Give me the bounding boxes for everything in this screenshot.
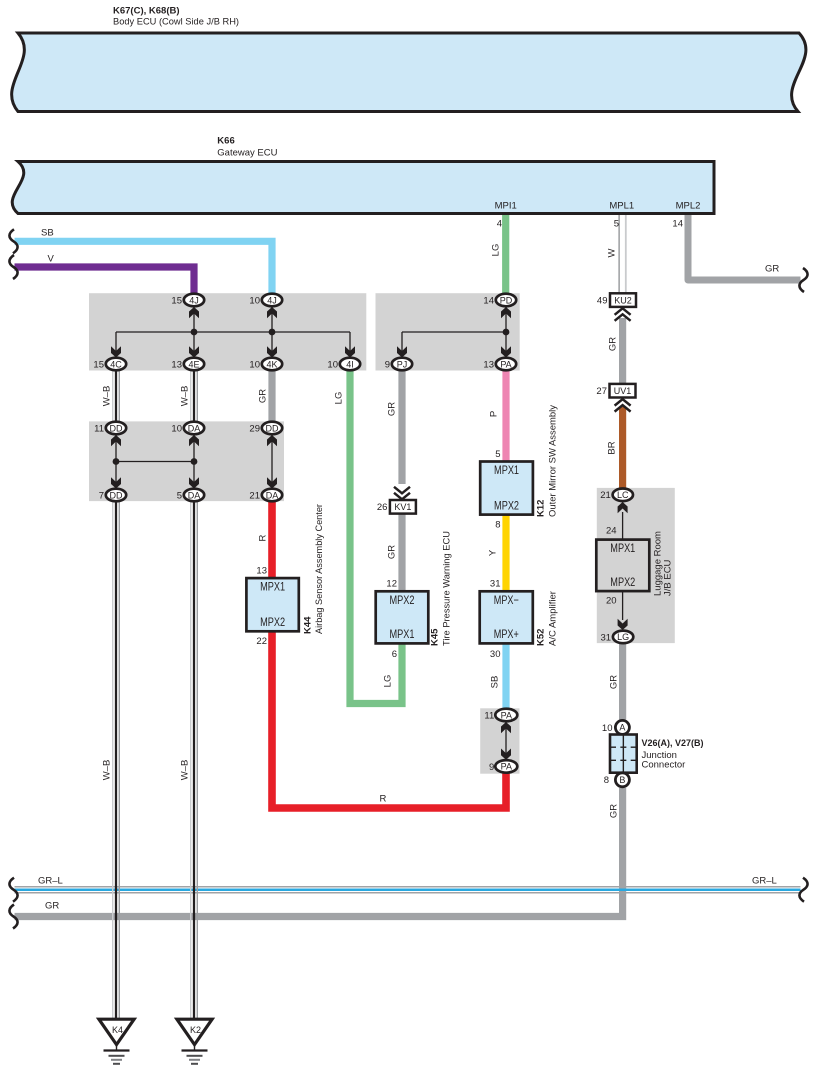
wire SB from Body ECU to 4J(10) [15, 241, 273, 294]
wire box1 horizontal bus [116, 331, 350, 333]
svg-text:MPX1: MPX1 [390, 627, 415, 641]
junction node box2 junction A [113, 458, 120, 465]
svg-text:PJ: PJ [397, 359, 408, 369]
svg-text:14: 14 [672, 219, 683, 230]
svg-text:6: 6 [392, 649, 397, 660]
connector DA pin 21 [249, 489, 282, 502]
svg-text:5: 5 [614, 219, 619, 230]
wire break symbol SB left break [9, 229, 17, 253]
svg-text:KU2: KU2 [614, 295, 632, 305]
svg-text:A: A [619, 723, 625, 733]
svg-text:MPX+: MPX+ [494, 627, 519, 641]
svg-text:V: V [48, 254, 55, 265]
ground K4 [99, 1019, 134, 1064]
svg-text:Y: Y [488, 549, 499, 556]
connector PJ pin 9 [385, 358, 412, 371]
wire break symbol V left break [9, 255, 17, 279]
svg-text:GR: GR [609, 675, 620, 689]
svg-text:10: 10 [602, 723, 613, 734]
shield panel box2 (DD/DA) [89, 421, 284, 501]
wire box3 col F vertical [505, 306, 507, 358]
connector DA pin 5 [177, 489, 204, 502]
wire W-B DD(7) to ground K4 [113, 501, 120, 1019]
connector 4I pin 10 [327, 358, 360, 371]
svg-text:24: 24 [606, 526, 617, 537]
svg-text:B: B [619, 775, 625, 785]
svg-text:K52: K52 [536, 629, 547, 646]
svg-text:PA: PA [500, 359, 511, 369]
svg-text:13: 13 [256, 566, 267, 577]
svg-text:MPX2: MPX2 [260, 615, 285, 629]
wire R K44 MPX2 pin22 to PA(9) [272, 631, 506, 808]
svg-text:MPX2: MPX2 [610, 575, 635, 589]
svg-text:V26(A), V27(B): V26(A), V27(B) [642, 738, 704, 749]
svg-text:GR: GR [608, 337, 619, 351]
svg-text:K44: K44 [303, 616, 314, 634]
arrow into DD(7) [111, 477, 121, 488]
connector A pin 10 [602, 720, 629, 734]
svg-text:10: 10 [249, 359, 260, 370]
svg-text:GR: GR [387, 402, 398, 416]
connector 4J pin 15 [171, 294, 204, 307]
svg-text:W–B: W–B [180, 386, 191, 407]
wire W-B 4C to DD(11) [113, 370, 120, 421]
svg-text:27: 27 [596, 386, 607, 397]
svg-text:4J: 4J [267, 295, 277, 305]
wire GR-L horizontal [15, 887, 801, 893]
svg-text:MPX2: MPX2 [494, 498, 519, 512]
wire W-B DA(5) to ground K2 [191, 501, 198, 1019]
svg-text:13: 13 [483, 359, 494, 370]
wire GR from MPL2 pin14 to right [688, 215, 801, 280]
svg-text:DA: DA [188, 490, 201, 500]
svg-text:8: 8 [604, 775, 609, 786]
svg-text:K45: K45 [430, 628, 441, 646]
arrow into DA(21) [267, 477, 277, 488]
arrow into PD [501, 307, 511, 318]
svg-text:LG: LG [617, 632, 629, 642]
junction node box2 junction B [191, 458, 198, 465]
arrow into LG oval [618, 619, 628, 630]
wire LC to MPX box [622, 512, 624, 540]
wire GR 4K to DD(29) [268, 370, 275, 421]
wire box1 col D drop [349, 332, 351, 358]
svg-text:R: R [380, 794, 387, 805]
wire box3 horizontal bus [402, 331, 506, 333]
svg-text:12: 12 [386, 579, 397, 590]
arrow into DA(5) [189, 477, 199, 488]
svg-text:PA: PA [501, 710, 512, 720]
svg-text:DA: DA [266, 490, 279, 500]
arrow into 4I [345, 346, 355, 357]
svg-text:4C: 4C [110, 359, 122, 369]
wire break symbol GR bottom left break [9, 905, 17, 929]
svg-text:LG: LG [383, 675, 394, 688]
svg-text:DD: DD [266, 423, 279, 433]
svg-text:MPI1: MPI1 [495, 201, 517, 212]
svg-text:29: 29 [249, 423, 260, 434]
svg-text:K67(C), K68(B): K67(C), K68(B) [113, 6, 180, 17]
connector LC pin 21 [600, 489, 633, 502]
svg-text:LG: LG [491, 244, 502, 257]
connector PA pin 9 [489, 760, 517, 773]
wire GR junction B to bottom bus [15, 788, 623, 917]
arrow into DA(10) [189, 435, 199, 446]
connector DD pin 29 [249, 422, 282, 435]
svg-text:KV1: KV1 [394, 502, 411, 512]
arrow into LC [618, 502, 628, 513]
svg-text:5: 5 [177, 490, 182, 501]
svg-text:DA: DA [188, 423, 201, 433]
component box K52 A/C Amplifier [480, 591, 533, 643]
svg-text:GR: GR [765, 264, 779, 275]
svg-text:LC: LC [617, 490, 629, 500]
svg-text:11: 11 [94, 423, 104, 434]
connector DD pin 11 [94, 422, 126, 435]
svg-text:20: 20 [606, 596, 617, 607]
shield panel box3 (PD/PJ/PA) [376, 293, 520, 370]
svg-text:SB: SB [41, 228, 54, 239]
arrow into DD(11) [111, 435, 121, 446]
wire BR UV1 to LC [619, 407, 626, 489]
svg-text:21: 21 [249, 490, 260, 501]
svg-text:4J: 4J [189, 295, 199, 305]
svg-text:15: 15 [171, 295, 182, 306]
wire LG from MPI1 pin4 to PD [502, 215, 509, 294]
arrow into 4E [189, 346, 199, 357]
shield panel Luggage Room J/B ECU [597, 488, 675, 643]
wire box2 col C vertical [271, 434, 273, 489]
wire PA pair vertical [505, 722, 507, 761]
svg-text:13: 13 [171, 359, 182, 370]
svg-text:21: 21 [600, 490, 611, 501]
svg-text:GR: GR [45, 901, 59, 912]
arrow into 4K [267, 346, 277, 357]
svg-text:Airbag Sensor Assembly Center: Airbag Sensor Assembly Center [314, 504, 325, 634]
svg-text:J/B ECU: J/B ECU [663, 559, 674, 596]
connector PA pin 13 [483, 358, 516, 371]
svg-text:W–B: W–B [102, 760, 113, 781]
svg-text:Body ECU (Cowl Side J/B RH): Body ECU (Cowl Side J/B RH) [113, 17, 239, 28]
connector UV1 pin 27 [596, 384, 635, 398]
svg-text:30: 30 [490, 649, 501, 660]
wire R DA(21) to K44 MPX1 pin13 [268, 501, 276, 578]
connector 4E pin 13 [171, 358, 204, 371]
svg-text:Gateway ECU: Gateway ECU [217, 148, 277, 159]
wire box3 col E drop [401, 332, 403, 358]
wire box1 col A drop [115, 332, 117, 358]
arrow into 4C [111, 346, 121, 357]
arrow into PJ [397, 346, 407, 357]
svg-text:9: 9 [385, 359, 390, 370]
svg-text:MPX1: MPX1 [260, 580, 285, 594]
svg-text:UV1: UV1 [614, 386, 632, 396]
svg-text:K66: K66 [217, 136, 234, 147]
twisted-pair chevrons below KU2 [615, 308, 631, 321]
ECU band K67/K68 Body ECU [12, 33, 806, 112]
svg-text:SB: SB [490, 676, 501, 689]
svg-text:4E: 4E [188, 359, 199, 369]
connector DD pin 7 [99, 489, 126, 502]
svg-text:26: 26 [377, 502, 388, 513]
svg-text:MPL2: MPL2 [676, 201, 701, 212]
svg-text:K2: K2 [190, 1025, 201, 1035]
svg-text:8: 8 [495, 519, 500, 530]
svg-text:GR: GR [609, 804, 620, 818]
shield panel box1 (4J/4C/4E/4K/4I) [89, 293, 366, 370]
wire GR LG oval to junction A [619, 643, 626, 719]
twisted-pair chevrons below UV1 [615, 399, 631, 412]
svg-text:W: W [607, 248, 618, 257]
wire W from MPL1 pin5 to KU2 [619, 215, 626, 293]
component box K44 Airbag Sensor Assembly Center [246, 578, 298, 631]
wire GR KV1 to K45 MPX2 pin12 [398, 513, 405, 591]
wire box2 col B vertical [193, 434, 195, 489]
svg-text:9: 9 [489, 762, 494, 773]
wire LG from 4I to K45 MPX1 pin6 [350, 370, 402, 703]
svg-text:K12: K12 [536, 500, 547, 517]
svg-text:BR: BR [607, 441, 618, 454]
arrow into PA(11) [501, 722, 511, 733]
svg-text:7: 7 [99, 490, 104, 501]
component box K12 Outer Mirror SW Assembly [480, 462, 533, 515]
connector 4J pin 10 [249, 294, 282, 307]
svg-text:GR–L: GR–L [752, 876, 777, 887]
junction connector V26/V27 grid [610, 735, 637, 773]
twisted-pair chevrons above KV1 [394, 487, 410, 500]
svg-text:4: 4 [497, 219, 502, 230]
svg-text:49: 49 [597, 296, 608, 307]
svg-text:LG: LG [334, 392, 345, 405]
svg-text:GR: GR [387, 545, 398, 559]
wire box1 col C vertical [271, 306, 273, 358]
junction node box1 junction B [191, 329, 198, 336]
connector B pin 8 [604, 773, 630, 787]
svg-text:10: 10 [171, 423, 182, 434]
arrow into 4J(15) [189, 307, 199, 318]
junction node box3 junction F [503, 329, 510, 336]
svg-text:14: 14 [483, 295, 494, 306]
arrow into 4J(10) [267, 307, 277, 318]
svg-text:Outer Mirror SW Assembly: Outer Mirror SW Assembly [548, 405, 559, 517]
svg-text:Tire Pressure Warning ECU: Tire Pressure Warning ECU [442, 531, 453, 646]
svg-text:PA: PA [501, 762, 512, 772]
svg-text:MPX−: MPX− [494, 593, 519, 607]
svg-text:4K: 4K [266, 359, 277, 369]
connector PD pin 14 [483, 294, 516, 307]
wire box2 col A vertical [115, 434, 117, 489]
connector PA pin 11 [484, 709, 517, 722]
wire GR KU2 to UV1 [619, 318, 626, 384]
wire break symbol GR right break [799, 268, 807, 292]
shield panel PA pair [480, 708, 519, 773]
svg-text:10: 10 [249, 295, 260, 306]
connector 4C pin 15 [93, 358, 126, 371]
arrow into DD(29) [267, 435, 277, 446]
svg-text:W–B: W–B [102, 386, 113, 407]
wire break symbol GR-L right break [799, 878, 807, 902]
wire P PA(13) to K12 MPX1 pin5 [502, 370, 509, 461]
connector LG pin 31 [601, 631, 634, 644]
svg-text:15: 15 [93, 359, 104, 370]
svg-text:11: 11 [484, 710, 494, 721]
arrow into PA(9) [501, 749, 511, 760]
svg-text:4I: 4I [346, 359, 354, 369]
wire box2 horizontal bus [116, 461, 194, 463]
wire Y K12 MPX2 pin8 to K52 MPX- pin31 [502, 515, 509, 592]
svg-text:5: 5 [495, 449, 500, 460]
wire W-B 4E to DA(10) [191, 370, 198, 421]
ground K2 [177, 1019, 212, 1064]
arrow into PA(13) [501, 346, 511, 357]
svg-text:A/C Amplifier: A/C Amplifier [548, 591, 559, 646]
connector 4K pin 10 [249, 358, 282, 371]
component box Luggage Room J/B ECU MPX [596, 540, 649, 592]
svg-text:K4: K4 [112, 1025, 123, 1035]
wire MPX box to LG oval [622, 591, 624, 620]
wire SB K52 MPX+ pin30 to PA(11) [502, 643, 509, 709]
ECU band K66 Gateway ECU [12, 162, 714, 214]
connector KV1 pin 26 [377, 500, 416, 514]
svg-text:DD: DD [110, 423, 123, 433]
svg-text:GR–L: GR–L [38, 876, 63, 887]
svg-text:W–B: W–B [180, 760, 191, 781]
wire V from Body ECU to 4J(15) [15, 267, 195, 294]
svg-text:MPX1: MPX1 [494, 463, 519, 477]
svg-text:GR: GR [258, 389, 269, 403]
svg-text:31: 31 [490, 579, 501, 590]
connector DA pin 10 [171, 422, 204, 435]
svg-text:P: P [489, 411, 500, 417]
svg-text:10: 10 [327, 359, 338, 370]
svg-text:22: 22 [256, 636, 267, 647]
svg-text:Connector: Connector [642, 759, 686, 770]
svg-text:MPL1: MPL1 [609, 201, 634, 212]
svg-text:MPX1: MPX1 [610, 541, 635, 555]
svg-text:PD: PD [500, 295, 513, 305]
wire GR PJ to KV1 [398, 370, 405, 484]
svg-text:R: R [258, 534, 269, 541]
connector KU2 pin 49 [597, 293, 636, 307]
component box K45 Tire Pressure Warning ECU [376, 591, 429, 643]
wire break symbol GR-L left break [9, 878, 17, 902]
junction node box1 junction C [269, 329, 276, 336]
svg-text:31: 31 [601, 632, 612, 643]
wire box1 col B vertical [193, 306, 195, 358]
svg-text:MPX2: MPX2 [390, 593, 415, 607]
svg-text:DD: DD [110, 490, 123, 500]
